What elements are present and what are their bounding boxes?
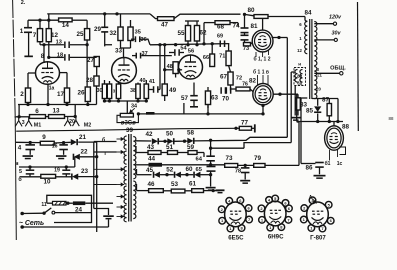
svg-text:26: 26 — [77, 90, 85, 97]
svg-text:49: 49 — [169, 87, 177, 94]
svg-text:ø3Cø: ø3Cø — [121, 121, 136, 127]
svg-text:79: 79 — [254, 155, 262, 162]
svg-text:2.: 2. — [21, 0, 26, 6]
svg-text:66: 66 — [203, 55, 209, 61]
svg-text:65: 65 — [196, 167, 203, 173]
svg-text:73: 73 — [243, 46, 249, 52]
svg-text:13: 13 — [52, 108, 60, 115]
svg-text:48: 48 — [167, 64, 173, 70]
svg-text:81: 81 — [250, 23, 258, 30]
svg-text:58: 58 — [187, 130, 195, 137]
svg-text:12: 12 — [297, 48, 302, 53]
svg-text:82: 82 — [249, 78, 257, 85]
svg-text:53: 53 — [171, 181, 179, 188]
svg-text:69: 69 — [217, 33, 223, 39]
svg-text:46: 46 — [147, 181, 155, 188]
svg-text:61: 61 — [189, 181, 197, 188]
svg-text:6: 6 — [35, 108, 39, 115]
svg-text:59: 59 — [187, 144, 195, 151]
svg-text:70: 70 — [222, 96, 230, 103]
svg-text:87: 87 — [322, 97, 330, 104]
svg-text:57: 57 — [181, 95, 189, 102]
svg-text:29: 29 — [94, 26, 102, 33]
svg-text:60: 60 — [185, 166, 193, 173]
svg-text:36: 36 — [140, 37, 146, 43]
svg-text:22: 22 — [80, 149, 88, 156]
svg-text:13: 13 — [56, 39, 62, 45]
svg-text:50: 50 — [166, 131, 174, 138]
svg-text:12: 12 — [51, 32, 59, 39]
svg-text:62: 62 — [199, 30, 207, 37]
svg-text:34: 34 — [131, 104, 137, 110]
svg-text:78: 78 — [235, 169, 241, 175]
svg-text:18: 18 — [57, 52, 63, 58]
svg-text:16: 16 — [52, 144, 58, 150]
svg-text:23: 23 — [81, 168, 89, 175]
svg-text:63: 63 — [211, 95, 219, 102]
svg-text:64: 64 — [196, 157, 203, 163]
svg-text:28: 28 — [86, 77, 94, 84]
svg-text:30: 30 — [97, 88, 103, 94]
svg-text:11: 11 — [41, 202, 47, 208]
svg-text:38: 38 — [130, 88, 136, 94]
svg-text:7: 7 — [33, 32, 37, 39]
svg-text:39: 39 — [126, 127, 134, 134]
svg-text:52: 52 — [166, 167, 174, 174]
svg-text:71: 71 — [219, 54, 225, 60]
svg-text:4: 4 — [18, 145, 22, 152]
svg-text:32: 32 — [109, 30, 117, 37]
svg-text:6H9C: 6H9C — [268, 234, 284, 241]
svg-text:33: 33 — [115, 48, 123, 55]
svg-text:19: 19 — [54, 168, 60, 174]
svg-text:77: 77 — [241, 120, 249, 127]
svg-text:45: 45 — [146, 167, 154, 174]
svg-text:1c: 1c — [337, 161, 343, 167]
svg-text:74: 74 — [232, 23, 240, 30]
svg-text:20: 20 — [69, 119, 75, 125]
svg-text:2: 2 — [20, 91, 24, 98]
svg-text:27: 27 — [87, 57, 95, 64]
svg-text:76: 76 — [242, 82, 248, 88]
svg-text:43: 43 — [147, 144, 155, 151]
svg-text:10: 10 — [43, 179, 51, 186]
svg-text:120v: 120v — [329, 15, 342, 21]
svg-text:14: 14 — [62, 22, 70, 29]
svg-text:1: 1 — [20, 28, 24, 35]
svg-text:8: 8 — [41, 53, 45, 60]
svg-text:40: 40 — [140, 78, 146, 84]
svg-text:44: 44 — [148, 156, 156, 163]
svg-text:85: 85 — [306, 108, 314, 115]
svg-text:55: 55 — [177, 30, 185, 37]
svg-text:80: 80 — [247, 7, 255, 14]
svg-text:51: 51 — [166, 144, 174, 151]
svg-text:56: 56 — [188, 49, 195, 55]
svg-text:6E5C: 6E5C — [228, 234, 244, 241]
svg-text:17: 17 — [57, 91, 65, 98]
svg-text:A: A — [309, 195, 313, 201]
svg-text:5: 5 — [19, 169, 22, 175]
svg-text:25: 25 — [76, 31, 84, 38]
svg-text:35: 35 — [135, 30, 141, 36]
svg-text:M1: M1 — [34, 123, 42, 129]
svg-text:M2: M2 — [84, 123, 92, 129]
svg-text:~ Сеть: ~ Сеть — [19, 220, 44, 227]
svg-text:42: 42 — [145, 131, 153, 138]
svg-text:84: 84 — [304, 10, 312, 17]
svg-text:1a: 1a — [49, 86, 55, 92]
svg-text:a: a — [16, 161, 19, 167]
svg-text:9: 9 — [42, 134, 46, 141]
svg-text:47: 47 — [161, 22, 169, 29]
svg-text:н: н — [298, 62, 301, 67]
svg-text:68: 68 — [217, 24, 225, 31]
svg-text:3: 3 — [22, 120, 25, 126]
svg-text:54: 54 — [180, 46, 187, 52]
svg-text:8д: 8д — [297, 81, 302, 86]
svg-text:73: 73 — [225, 155, 233, 162]
svg-text:67: 67 — [220, 74, 228, 81]
svg-text:8л: 8л — [297, 74, 302, 79]
svg-text:ОБЩ.: ОБЩ. — [330, 66, 346, 72]
svg-text:41: 41 — [149, 79, 155, 85]
svg-text:Г-807: Г-807 — [310, 234, 326, 241]
svg-text:б 1 1 в: б 1 1 в — [253, 69, 269, 76]
svg-text:30v: 30v — [332, 31, 342, 37]
svg-text:б1: б1 — [325, 160, 331, 167]
svg-text:88: 88 — [389, 116, 394, 121]
svg-text:21: 21 — [79, 134, 87, 141]
svg-text:88: 88 — [342, 124, 350, 131]
svg-text:86: 86 — [305, 165, 313, 172]
svg-text:20: 20 — [316, 87, 321, 92]
